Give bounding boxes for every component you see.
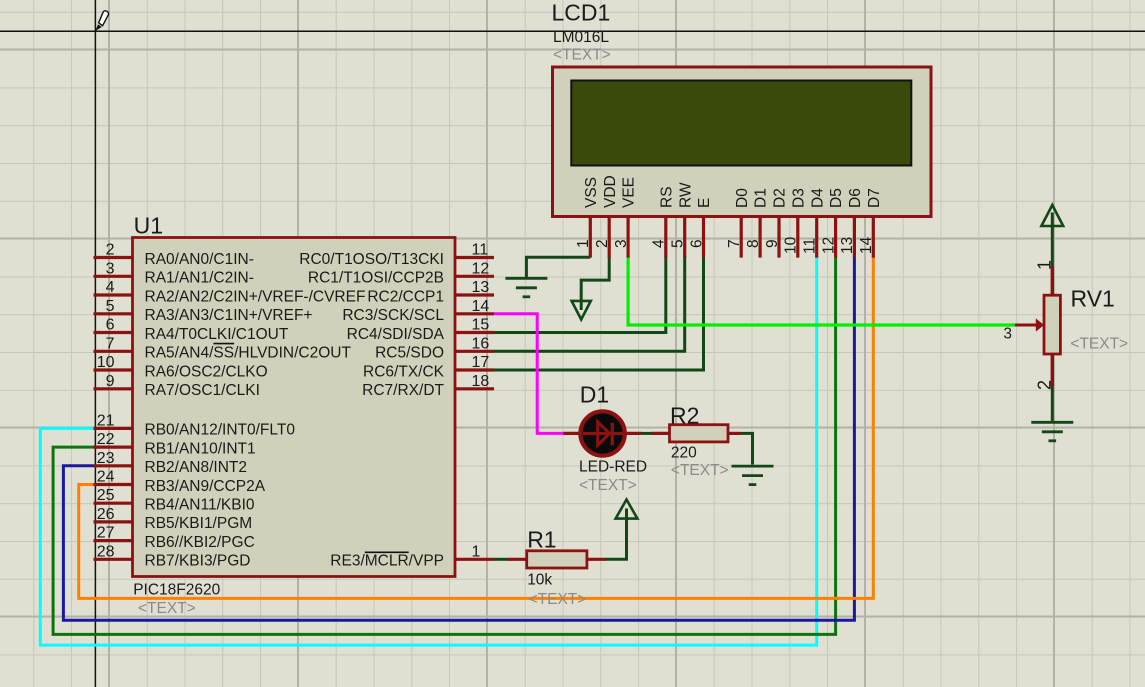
svg-text:10k: 10k	[527, 572, 552, 589]
svg-text:RA7/OSC1/CLKI: RA7/OSC1/CLKI	[145, 382, 260, 399]
microcontroller U1 PIC18F2620 body	[94, 238, 495, 577]
svg-text:RB0/AN12/INT0/FLT0: RB0/AN12/INT0/FLT0	[145, 422, 296, 439]
svg-text:9: 9	[764, 239, 781, 248]
svg-text:RA4/T0CLKI/C1OUT: RA4/T0CLKI/C1OUT	[145, 326, 289, 343]
svg-text:10: 10	[97, 354, 115, 371]
svg-text:D7: D7	[866, 188, 883, 208]
wire LED cathode to R2	[641, 432, 652, 435]
svg-text:2: 2	[594, 239, 611, 248]
svg-text:7: 7	[106, 335, 115, 352]
svg-text:<TEXT>: <TEXT>	[138, 600, 196, 617]
svg-text:3: 3	[613, 239, 630, 248]
svg-text:RC2/CCP1: RC2/CCP1	[367, 288, 444, 305]
svg-text:26: 26	[97, 506, 115, 523]
svg-text:RE3/MCLR/VPP: RE3/MCLR/VPP	[330, 553, 444, 570]
svg-text:RA1/AN1/C2IN-: RA1/AN1/C2IN-	[145, 270, 254, 287]
svg-text:RB3/AN9/CCP2A: RB3/AN9/CCP2A	[145, 478, 266, 495]
svg-text:RC5/SDO: RC5/SDO	[375, 345, 444, 362]
svg-text:E: E	[696, 198, 713, 208]
svg-text:10: 10	[783, 236, 800, 254]
wire D4: LCD pin11 to U1 pin21 (cyan)	[40, 256, 816, 645]
resistor R2 220	[651, 425, 741, 442]
svg-text:R2: R2	[670, 402, 699, 428]
svg-text:RB7/KBI3/PGD: RB7/KBI3/PGD	[145, 553, 251, 570]
svg-text:PIC18F2620: PIC18F2620	[133, 582, 220, 599]
svg-text:RC4/SDI/SDA: RC4/SDI/SDA	[347, 326, 445, 343]
svg-text:D1: D1	[753, 188, 770, 208]
svg-text:D2: D2	[772, 188, 789, 208]
svg-text:D0: D0	[734, 188, 751, 208]
svg-text:22: 22	[97, 431, 115, 448]
svg-text:RB5/KBI1/PGM: RB5/KBI1/PGM	[145, 515, 253, 532]
LCD1 pin stubs 1-14	[590, 217, 873, 258]
origin pencil marker	[95, 11, 108, 31]
ground (R2 net)	[732, 466, 774, 485]
svg-text:2: 2	[106, 242, 115, 259]
U1 right pin stubs	[455, 258, 494, 560]
power arrow up (RV1 pin1)	[1041, 205, 1063, 226]
wire U1 pin1 to R1	[494, 558, 509, 561]
sheet border horizontal line	[0, 30, 1145, 32]
power arrow up (R1 net)	[616, 500, 638, 519]
svg-text:D1: D1	[580, 381, 609, 407]
U1 overline on SS (RA5)	[213, 343, 234, 345]
svg-text:2: 2	[1035, 380, 1055, 390]
svg-text:1: 1	[1035, 260, 1055, 270]
svg-text:<TEXT>: <TEXT>	[671, 462, 729, 479]
svg-text:VEE: VEE	[621, 177, 638, 208]
wire R1 to power arrow	[605, 509, 627, 560]
svg-text:1: 1	[575, 239, 592, 248]
svg-text:RA5/AN4/SS/HLVDIN/C2OUT: RA5/AN4/SS/HLVDIN/C2OUT	[145, 345, 352, 362]
wire VSS: LCD pin1 to ground	[526, 257, 590, 277]
wire D5: LCD pin12 to U1 pin22 (green)	[53, 256, 836, 634]
svg-text:<TEXT>: <TEXT>	[579, 477, 637, 494]
svg-text:12: 12	[472, 260, 490, 277]
ground (VSS net)	[505, 278, 547, 297]
svg-text:VSS: VSS	[583, 177, 600, 208]
svg-text:R1: R1	[527, 526, 556, 552]
svg-text:RA6/OSC2/CLKO: RA6/OSC2/CLKO	[145, 363, 268, 380]
wire RV1 pin1 to power arrow	[1051, 213, 1054, 267]
svg-text:8: 8	[745, 239, 762, 248]
svg-text:11: 11	[802, 238, 819, 254]
svg-text:D4: D4	[809, 188, 826, 208]
svg-text:<TEXT>: <TEXT>	[529, 591, 587, 608]
wire RS: LCD pin4 to U1 pin15	[494, 256, 666, 333]
svg-text:RV1: RV1	[1071, 285, 1115, 311]
wire E: LCD pin6 to U1 pin17	[494, 256, 704, 370]
svg-text:RA3/AN3/C1IN+/VREF+: RA3/AN3/C1IN+/VREF+	[145, 307, 313, 324]
wire RV1 pin2 to ground	[1051, 386, 1054, 421]
wire D6: LCD pin13 to U1 pin23 (blue)	[63, 256, 854, 620]
svg-text:RW: RW	[677, 182, 694, 208]
U1 left pin stubs	[94, 258, 133, 560]
svg-text:RB2/AN8/INT2: RB2/AN8/INT2	[145, 459, 248, 476]
svg-text:6: 6	[688, 239, 705, 248]
wire VEE: LCD pin3 to RV1 wiper (bright green)	[628, 256, 1015, 325]
wire R2 to ground	[741, 433, 753, 464]
svg-text:LED-RED: LED-RED	[579, 459, 647, 476]
resistor R1 10k	[508, 551, 606, 568]
svg-text:LM016L: LM016L	[553, 29, 609, 46]
svg-text:RC6/TX/CK: RC6/TX/CK	[363, 363, 445, 380]
svg-text:RB4/AN11/KBI0: RB4/AN11/KBI0	[145, 497, 255, 514]
svg-text:RC1/T1OSI/CCP2B: RC1/T1OSI/CCP2B	[308, 270, 444, 287]
svg-text:14: 14	[472, 298, 490, 315]
wire VDD: LCD pin2 to power-down arrow	[581, 256, 609, 310]
svg-text:RS: RS	[658, 186, 675, 208]
wire D7: LCD pin14 to U1 pin24 (orange)	[79, 256, 874, 598]
svg-text:<TEXT>: <TEXT>	[1070, 335, 1128, 352]
power arrow down (VDD net)	[572, 301, 591, 320]
LED D1 LED-RED	[564, 411, 642, 455]
svg-text:4: 4	[651, 239, 668, 248]
svg-text:3: 3	[106, 260, 115, 277]
svg-text:D5: D5	[828, 188, 845, 208]
svg-text:11: 11	[472, 242, 489, 259]
svg-text:RA2/AN2/C2IN+/VREF-/CVREF: RA2/AN2/C2IN+/VREF-/CVREF	[145, 288, 366, 305]
svg-text:7: 7	[726, 239, 743, 248]
svg-text:LCD1: LCD1	[552, 0, 611, 26]
LCD display LCD1 LM016L	[553, 67, 932, 258]
svg-text:23: 23	[97, 450, 115, 467]
wire RC4 to LED anode (magenta)	[494, 314, 565, 434]
svg-text:3: 3	[1003, 326, 1012, 343]
svg-text:RC3/SCK/SCL: RC3/SCK/SCL	[342, 307, 444, 324]
svg-text:14: 14	[858, 236, 875, 254]
svg-text:<TEXT>: <TEXT>	[553, 46, 611, 63]
svg-text:6: 6	[106, 317, 115, 334]
svg-text:RC7/RX/DT: RC7/RX/DT	[362, 382, 444, 399]
svg-text:RC0/T1OSO/T13CKI: RC0/T1OSO/T13CKI	[299, 251, 444, 268]
svg-text:16: 16	[472, 335, 490, 352]
wire RW: LCD pin5 to U1 pin16	[494, 256, 685, 351]
svg-text:18: 18	[472, 373, 490, 390]
svg-text:RB1/AN10/INT1: RB1/AN10/INT1	[145, 440, 256, 457]
svg-text:1: 1	[472, 543, 481, 560]
svg-text:D3: D3	[790, 188, 807, 208]
svg-text:RA0/AN0/C1IN-: RA0/AN0/C1IN-	[145, 251, 254, 268]
svg-text:U1: U1	[134, 212, 163, 238]
svg-text:13: 13	[472, 279, 490, 296]
sheet border vertical line	[94, 0, 96, 687]
svg-text:220: 220	[671, 444, 697, 461]
svg-text:RB6//KBI2/PGC: RB6//KBI2/PGC	[145, 534, 255, 551]
svg-text:VDD: VDD	[602, 175, 619, 208]
svg-text:5: 5	[670, 239, 687, 248]
ground (RV1 pin2 net)	[1031, 422, 1073, 441]
svg-text:12: 12	[820, 237, 837, 254]
svg-text:27: 27	[97, 525, 115, 542]
svg-text:24: 24	[97, 469, 115, 486]
svg-text:4: 4	[106, 279, 115, 296]
svg-text:21: 21	[97, 412, 115, 429]
svg-text:9: 9	[106, 373, 115, 390]
potentiometer RV1	[1003, 260, 1060, 390]
U1 overline on MCLR (RE3)	[365, 551, 409, 553]
svg-text:25: 25	[97, 487, 115, 504]
svg-text:15: 15	[472, 317, 490, 334]
svg-text:13: 13	[839, 237, 856, 254]
svg-text:28: 28	[97, 543, 115, 560]
svg-text:17: 17	[472, 354, 490, 371]
svg-text:5: 5	[106, 298, 115, 315]
svg-text:D6: D6	[847, 188, 864, 208]
